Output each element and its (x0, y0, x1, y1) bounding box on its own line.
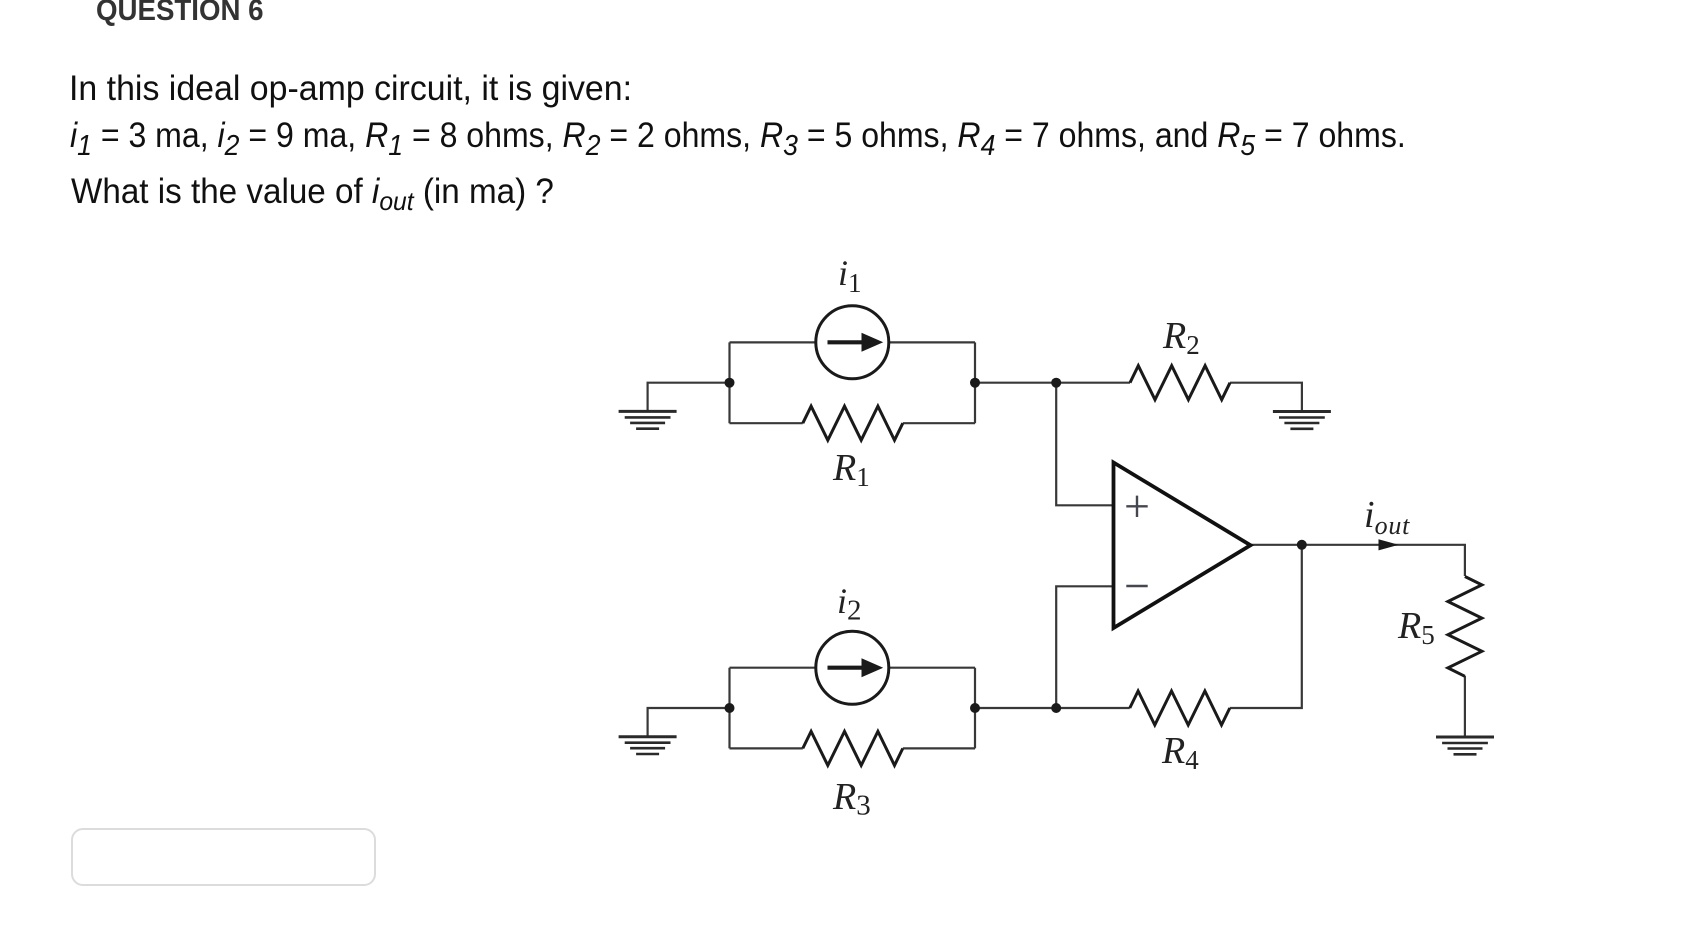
question text line 1 (69, 71, 632, 106)
wire node A to R2 (975, 382, 1130, 384)
node dot: noninverting tap (1051, 378, 1061, 388)
wire top rail of i1/R1 block (730, 341, 976, 343)
wire right vertical of i2/R3 block (974, 668, 976, 749)
heading QUESTION 6 (96, 0, 264, 26)
node dot: inverting tap (1051, 703, 1061, 713)
node dot: i2 block right (970, 703, 980, 713)
svg-text:iout: iout (1364, 494, 1410, 540)
svg-text:i1: i1 (838, 253, 862, 298)
op-amp U1 (1114, 463, 1251, 629)
node dot: i2 block left (725, 703, 735, 713)
ground under R5 (1436, 737, 1494, 754)
svg-text:R4: R4 (1161, 730, 1199, 775)
question text line 2 (70, 118, 1406, 153)
current source i1 (816, 306, 889, 379)
wire inverting input rise (1056, 586, 1113, 708)
wire ground stub bottom-left (648, 708, 730, 737)
current source i2 (816, 631, 889, 704)
wire top rail of i2/R3 block (730, 667, 976, 669)
resistor R4 (1130, 691, 1230, 725)
wire right vertical of i1/R1 block (974, 342, 976, 423)
ground top-left (619, 411, 677, 428)
arrow iout direction (1379, 539, 1399, 550)
ground bottom-left (619, 737, 677, 754)
node dot: output node (1297, 540, 1307, 550)
node dot: i1 block right (970, 378, 980, 388)
pin - inverting input mark (1126, 585, 1147, 587)
resistor R3 (803, 731, 903, 765)
resistor R1 (803, 406, 903, 440)
wire bottom-right lead of R1 (903, 422, 975, 424)
wire left vertical of i1/R1 block (728, 342, 730, 423)
pin + noninverting input mark (1126, 496, 1147, 517)
wire noninverting input drop (1056, 383, 1113, 506)
svg-text:R5: R5 (1397, 605, 1435, 650)
node dot: i1 block left (725, 378, 735, 388)
wire R4 to feedback vertical (1230, 545, 1302, 708)
svg-text:R1: R1 (832, 447, 870, 492)
svg-text:R2: R2 (1162, 315, 1200, 360)
wire op-amp output (1251, 545, 1465, 576)
ground top-right (1273, 412, 1331, 429)
wire bottom-right lead of R3 (903, 747, 975, 749)
svg-text:R3: R3 (832, 776, 871, 822)
resistor R2 (1130, 366, 1230, 400)
wire left vertical of i2/R3 block (728, 668, 730, 749)
wire bottom-left lead of R1 (730, 422, 803, 424)
wire bottom-left lead of R3 (730, 747, 803, 749)
wire R5 bottom to ground (1464, 676, 1466, 737)
svg-text:i2: i2 (837, 581, 862, 627)
question text line 3 (71, 174, 554, 209)
wire ground stub top-left (648, 383, 730, 412)
wire R2 to ground (1230, 383, 1302, 412)
resistor R5 (1448, 577, 1482, 677)
answer input box (71, 828, 376, 886)
wire node B to R4 (975, 707, 1130, 709)
